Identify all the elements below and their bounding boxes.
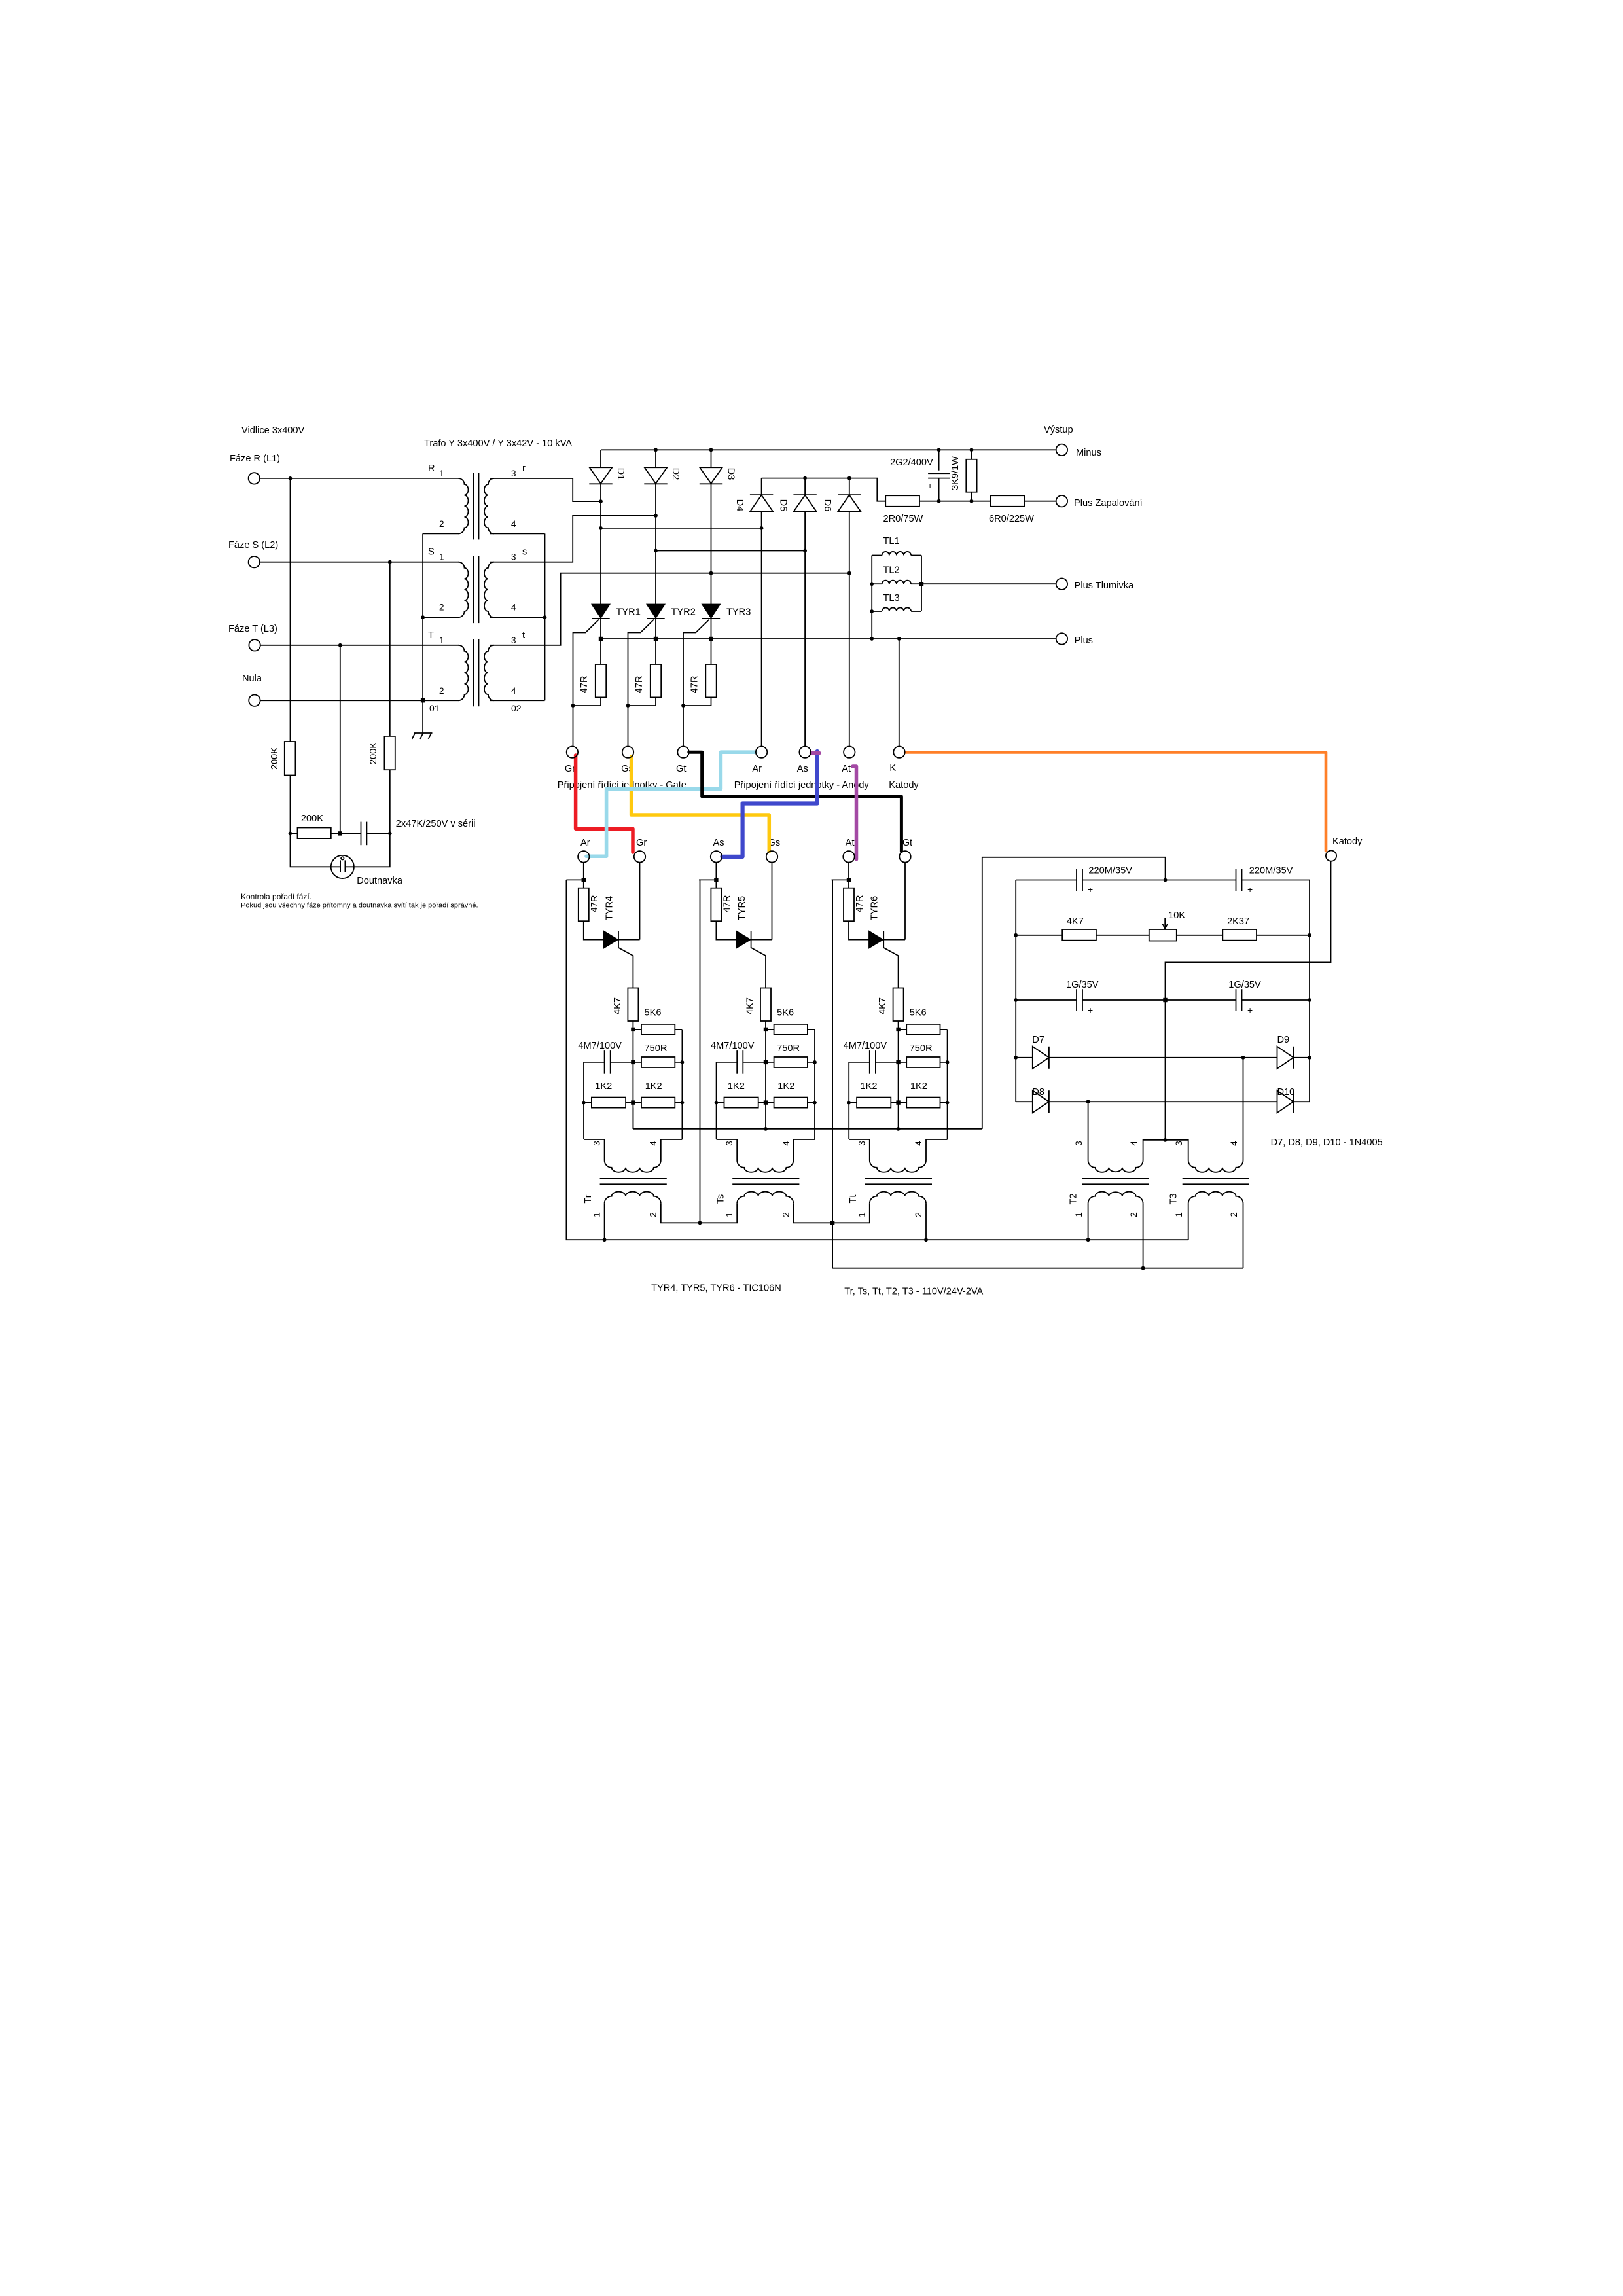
wire mid vertical lower: [632, 1062, 633, 1103]
label At lower: [846, 838, 855, 848]
terminal Plus Zapalování: [1056, 495, 1067, 507]
inductor TL2: [872, 581, 921, 584]
svg-text:2: 2: [439, 519, 444, 529]
node 1K2 mid junction: [764, 1100, 768, 1104]
wire mid to bus: [765, 1103, 766, 1129]
resistor 4K7 (pot row): [1062, 929, 1096, 941]
wire S drop lower: [389, 770, 391, 833]
label As lower: [713, 838, 724, 848]
wire 750R right: [808, 1062, 815, 1063]
wire t pin3 to D3/D6: [490, 573, 849, 645]
wire TYR4 anode terminal lead: [583, 863, 584, 888]
svg-text:TYR3: TYR3: [726, 607, 751, 618]
svg-text:3: 3: [724, 1141, 734, 1146]
svg-text:1K2: 1K2: [645, 1081, 662, 1092]
gate TYR6: [884, 948, 899, 988]
transformer R primary winding: [459, 478, 469, 533]
label 02: [511, 703, 522, 713]
wire T3 pin2: [1243, 1204, 1244, 1268]
node T junction: [338, 643, 342, 647]
text Kontrola: [241, 892, 312, 901]
wire middle bus: [633, 1108, 982, 1129]
wire TYR6 cathode terminal lead: [904, 863, 906, 940]
resistor 47R (TYR6): [844, 888, 854, 922]
wire mid vertical upper: [632, 1030, 633, 1062]
wire row C left: [1016, 935, 1062, 936]
wire 750R lead: [899, 1062, 907, 1063]
wire lamp right lead: [345, 833, 389, 867]
label D3: [726, 468, 736, 480]
transformer T3 primary winding: [1188, 1160, 1243, 1172]
node link junction: [1164, 1138, 1168, 1142]
svg-text:2K37: 2K37: [1227, 916, 1249, 927]
node gate2 junction: [626, 704, 630, 708]
transformer R secondary winding: [484, 478, 494, 533]
label T2 pin3: [1074, 1141, 1084, 1146]
svg-text:+: +: [1247, 1005, 1253, 1015]
label D7: [1032, 1035, 1044, 1045]
svg-text:TL1: TL1: [883, 536, 900, 547]
node zap 3K9: [970, 499, 974, 503]
node 1K2 mid junction: [631, 1100, 635, 1104]
label 4K7 (TYR5): [745, 997, 755, 1014]
wire row A link: [982, 857, 1166, 880]
transformer T primary winding: [459, 645, 469, 700]
label TYR6: [870, 896, 880, 920]
resistor 1K2b (TYR6): [906, 1098, 940, 1108]
svg-text:TYR2: TYR2: [671, 607, 696, 618]
svg-text:1: 1: [439, 469, 444, 478]
svg-text:Fáze R (L1): Fáze R (L1): [230, 454, 280, 464]
svg-text:Tr: Tr: [583, 1194, 594, 1203]
wire right rail right net: [1309, 880, 1310, 1102]
svg-text:47R: 47R: [689, 676, 700, 694]
node R junction: [289, 476, 293, 480]
label Ts pin4: [781, 1141, 791, 1146]
svg-text:At: At: [842, 764, 851, 774]
wire Nula line: [260, 700, 459, 701]
svg-text:Pokud jsou všechny fáze přítom: Pokud jsou všechny fáze přítomny a doutn…: [241, 902, 478, 910]
thyristor TYR4: [604, 931, 618, 948]
svg-text:Vidlice 3x400V: Vidlice 3x400V: [241, 425, 305, 436]
svg-text:Trafo Y 3x400V / Y 3x42V - 10: Trafo Y 3x400V / Y 3x42V - 10 kVA: [424, 439, 572, 449]
wire T3 pin4: [1243, 1058, 1244, 1160]
resistor 1K2a (TYR4): [592, 1098, 626, 1108]
svg-text:2: 2: [781, 1212, 791, 1217]
wire D3 to TYR3: [711, 484, 712, 604]
label D6: [822, 499, 832, 512]
svg-text:5K6: 5K6: [910, 1008, 927, 1018]
wire lamp row b: [331, 833, 361, 834]
svg-text:D6: D6: [822, 499, 832, 512]
svg-text:1K2: 1K2: [777, 1081, 794, 1092]
wire Fáze T line: [260, 645, 459, 646]
wire TL left rail: [871, 556, 872, 639]
wire cap right: [611, 1062, 633, 1063]
svg-text:2R0/75W: 2R0/75W: [883, 514, 923, 524]
wire mid to bus: [632, 1103, 633, 1129]
node 750R right junction: [813, 1060, 817, 1064]
wire 4K7 bottom: [765, 1021, 766, 1030]
wire cap 2G2 bottom: [938, 478, 940, 501]
svg-text:4K7: 4K7: [745, 997, 755, 1014]
wire Plus bus: [601, 638, 1056, 639]
svg-text:10K: 10K: [1168, 910, 1185, 921]
label As upper: [797, 764, 808, 774]
svg-text:K: K: [889, 763, 896, 774]
wire gate2 to terminal: [628, 706, 629, 747]
wire 1K2 right lead: [940, 1102, 948, 1103]
wire mid vertical lower: [898, 1062, 899, 1103]
node row C left: [1014, 933, 1018, 937]
resistor 1K2a (TYR5): [724, 1098, 758, 1108]
svg-text:Gr: Gr: [565, 764, 575, 774]
label Tt pin2: [914, 1212, 923, 1217]
label T2 pin1: [1074, 1212, 1084, 1217]
wire left long vertical: [982, 857, 983, 1129]
wire 1K2a lead: [584, 1102, 592, 1103]
wire TYR6 cathode: [883, 939, 905, 941]
label 47R (TYR4): [590, 895, 600, 913]
resistor 6R0/225W: [990, 495, 1024, 507]
wire R drop: [290, 478, 291, 742]
wire row G left: [1016, 1101, 1033, 1102]
terminal Fáze T: [249, 639, 260, 651]
svg-text:T3: T3: [1169, 1193, 1179, 1204]
node mid bus TYR5: [764, 1127, 768, 1131]
svg-text:4: 4: [914, 1141, 923, 1146]
label T3: [1169, 1193, 1179, 1204]
svg-text:4K7: 4K7: [1067, 916, 1084, 927]
node 750R right junction: [681, 1060, 685, 1064]
wire R pin2 to star: [423, 533, 459, 534]
wire row F right: [1293, 1057, 1310, 1058]
svg-text:47R: 47R: [590, 895, 600, 913]
node TYR6 rail junction: [830, 1221, 834, 1225]
label TYR5: [737, 896, 747, 920]
text Připojení Anody: [734, 780, 870, 791]
wire cap 2G2 top: [938, 450, 940, 470]
label TYR2: [671, 607, 696, 618]
svg-text:D10: D10: [1277, 1087, 1295, 1098]
wire R drop lower: [290, 776, 291, 834]
resistor 1K2b (TYR5): [774, 1098, 808, 1108]
wire TL right rail: [921, 556, 922, 612]
wire 3K9 bottom: [971, 492, 972, 501]
wire T2 pin4 to T3 pin3: [1143, 1140, 1188, 1160]
capacitor 220M/35V (2): [1236, 869, 1242, 891]
node D1-D4 junction: [599, 526, 603, 530]
node TYR5 anode junction: [714, 878, 718, 882]
label 47R (TYR1): [579, 676, 590, 694]
node 750R junction: [896, 1060, 900, 1064]
text trafos: [844, 1287, 983, 1297]
label 3K9/1W: [950, 456, 961, 490]
svg-text:1K2: 1K2: [910, 1081, 927, 1092]
label D1: [615, 468, 626, 480]
wire left pin rail: [716, 1103, 717, 1139]
wire pin3 jog: [717, 1139, 738, 1160]
wire primary star vertical: [422, 533, 423, 700]
label Ts pin3: [724, 1141, 734, 1146]
label 2G2/400V: [890, 457, 933, 468]
label D5: [777, 499, 788, 512]
node T3 pin4 junction: [1241, 1056, 1245, 1060]
resistor 2K37: [1222, 929, 1257, 941]
label Ar upper: [752, 764, 762, 774]
wire red Gr-Gr: [576, 755, 633, 852]
wire cap right: [876, 1062, 899, 1063]
transformer Tr secondary winding: [605, 1192, 661, 1204]
label Ts pin1: [724, 1212, 734, 1217]
wire zap to terminal: [1024, 501, 1056, 502]
svg-text:Minus: Minus: [1076, 448, 1101, 458]
node TYR4 anode junction: [582, 878, 586, 882]
svg-text:47R: 47R: [579, 676, 590, 694]
label 2G2 plus: [927, 480, 933, 491]
svg-text:+: +: [1247, 884, 1253, 895]
label 200K (S): [368, 742, 379, 764]
svg-text:1: 1: [857, 1212, 867, 1217]
wire TYR5 left rail: [700, 880, 701, 1223]
wire row B mid: [1082, 880, 1236, 881]
capacitor 2x47K/250V: [361, 822, 367, 846]
wire T2 pin2: [1143, 1204, 1144, 1268]
svg-text:3: 3: [592, 1141, 602, 1146]
node D5 anode junction: [803, 549, 807, 553]
wire D1 to TYR1: [600, 484, 601, 604]
svg-text:s: s: [522, 547, 527, 558]
node D6 anode junction: [847, 571, 851, 575]
wire TYR4 left rail: [566, 880, 604, 1240]
wire TYR4 cathode terminal lead: [639, 863, 641, 940]
wire 4K7 bottom: [632, 1021, 633, 1030]
svg-text:Připojení řídící jednotky - An: Připojení řídící jednotky - Anody: [734, 780, 870, 791]
svg-text:Kontrola pořadí fází.: Kontrola pořadí fází.: [241, 892, 312, 901]
svg-text:D9: D9: [1277, 1035, 1290, 1045]
node 1K2 right junction: [681, 1101, 685, 1105]
wire s pin3 to D2: [490, 516, 656, 562]
thyristor TYR6: [869, 931, 883, 948]
svg-text:TL2: TL2: [883, 565, 900, 576]
label 4K7 (pot row): [1067, 916, 1084, 927]
node TL rail on bus: [870, 637, 874, 641]
wire gate1 to terminal: [573, 706, 574, 747]
svg-text:200K: 200K: [270, 747, 280, 770]
wire TYR4 anode: [584, 921, 604, 939]
resistor 5K6 (TYR5): [774, 1024, 808, 1035]
label Plus Tlumivka: [1075, 581, 1134, 591]
diode D7: [1033, 1047, 1049, 1069]
label 4K7 (TYR4): [613, 997, 623, 1014]
wire row E mid: [1082, 999, 1236, 1001]
wire 5K6 right: [940, 1029, 948, 1030]
wire pin4 jog: [793, 1139, 815, 1160]
label 4M7/100V (TYR6): [844, 1041, 887, 1051]
wire right rail: [681, 1030, 683, 1139]
terminal Gr (lower): [634, 851, 645, 862]
svg-text:5K6: 5K6: [645, 1008, 662, 1018]
label Tr pin3: [592, 1141, 602, 1146]
svg-text:Fáze T (L3): Fáze T (L3): [228, 624, 277, 634]
wire right rail: [947, 1030, 948, 1139]
node bus D6: [847, 476, 851, 480]
svg-text:2: 2: [1229, 1212, 1239, 1217]
diode D1: [589, 467, 612, 484]
svg-text:4: 4: [511, 519, 516, 529]
wire left pin rail: [848, 1103, 849, 1139]
ground symbol: [412, 733, 433, 739]
transformer T core: [473, 639, 478, 706]
gate TYR1: [573, 620, 599, 706]
svg-text:1: 1: [1074, 1212, 1084, 1217]
node 1K2 left junction: [715, 1101, 719, 1105]
label 750R (TYR6): [910, 1043, 933, 1054]
node gate1 junction: [571, 704, 575, 708]
label T3 pin1: [1174, 1212, 1184, 1217]
diode D9: [1277, 1047, 1294, 1069]
terminal Katody: [1326, 851, 1336, 861]
label Výstup: [1044, 425, 1073, 435]
terminal Ar (upper): [756, 747, 767, 758]
wire TYR6 anode: [849, 921, 869, 939]
svg-text:3: 3: [511, 636, 516, 645]
wire 750R lead: [633, 1062, 641, 1063]
wire TYR5 cathode terminal lead: [772, 863, 773, 940]
svg-text:Plus Zapalování: Plus Zapalování: [1074, 498, 1143, 509]
wire lamp row a: [291, 833, 298, 834]
node D4 anode junction: [760, 526, 764, 530]
transformer Ts secondary winding: [737, 1192, 793, 1204]
wire zap row: [919, 501, 990, 502]
node 5K6 junction: [896, 1028, 900, 1031]
capacitor 4M7/100V (TYR6): [870, 1050, 876, 1074]
terminal Gt (lower): [899, 851, 910, 862]
svg-text:Doutnavka: Doutnavka: [357, 876, 403, 886]
wire r pin3 to D1: [490, 478, 601, 501]
svg-text:3K9/1W: 3K9/1W: [950, 456, 961, 490]
svg-text:Nula: Nula: [242, 673, 262, 684]
wire 5K6 lead: [899, 1029, 907, 1030]
label Gr lower: [636, 838, 647, 848]
svg-text:47R: 47R: [722, 895, 732, 913]
svg-text:750R: 750R: [777, 1043, 800, 1054]
node TYR5 rail junction: [698, 1221, 702, 1225]
svg-text:1K2: 1K2: [595, 1081, 612, 1092]
svg-text:At: At: [846, 838, 855, 848]
svg-text:+: +: [1088, 884, 1093, 895]
wire row F mid: [1049, 1057, 1277, 1058]
label 1K2b (TYR5): [777, 1081, 794, 1092]
node T2 pin2 junction: [1141, 1266, 1145, 1270]
label T2 pin2: [1129, 1212, 1139, 1217]
svg-text:+: +: [927, 480, 933, 491]
svg-text:5K6: 5K6: [777, 1008, 794, 1018]
svg-text:02: 02: [511, 703, 522, 713]
svg-text:4: 4: [649, 1141, 658, 1146]
wire 47R1 top: [600, 639, 601, 664]
resistor 2R0/75W: [885, 495, 919, 507]
label 200K (R): [270, 747, 280, 770]
label 1G/35V (2): [1228, 980, 1261, 990]
wire mid to bus: [898, 1103, 899, 1129]
terminal Fáze R: [249, 473, 260, 484]
wire pin3 jog: [849, 1139, 870, 1160]
svg-text:2: 2: [649, 1212, 658, 1217]
label 200K (horiz): [301, 814, 323, 824]
wire cap left: [584, 1062, 605, 1103]
svg-text:D4: D4: [734, 499, 745, 512]
svg-text:Katody: Katody: [1332, 836, 1363, 847]
transformer T2 primary winding: [1088, 1160, 1143, 1172]
wire S pin2 stub: [423, 617, 459, 618]
wire D2 to TYR2: [655, 484, 656, 604]
svg-text:TYR1: TYR1: [616, 607, 641, 618]
wire row B: [1016, 880, 1077, 881]
wire pin3 jog: [584, 1139, 605, 1160]
terminal Minus: [1056, 444, 1067, 456]
resistor 750R (TYR6): [906, 1057, 940, 1067]
label Tr pin4: [649, 1141, 658, 1146]
transformer Ts primary winding: [737, 1160, 793, 1172]
label T pin2: [439, 686, 444, 696]
svg-text:2: 2: [1129, 1212, 1139, 1217]
diode D4: [750, 495, 773, 511]
node row G T2pin3: [1086, 1100, 1090, 1103]
label 1K2b (TYR6): [910, 1081, 927, 1092]
resistor 47R (TYR5): [711, 888, 721, 922]
wire TYR5 anode: [716, 921, 736, 939]
label 4M7/100V (TYR5): [711, 1041, 755, 1051]
label Gt upper: [676, 764, 686, 774]
label t pin3: [511, 630, 525, 645]
inductor TL1: [872, 552, 921, 556]
svg-text:D8: D8: [1032, 1087, 1044, 1098]
node 1K2 left junction: [582, 1101, 586, 1105]
svg-text:r: r: [522, 463, 526, 474]
wire mid vertical lower: [765, 1062, 766, 1103]
wire TYR5 cathode: [751, 939, 772, 941]
node bus D3: [709, 448, 713, 452]
wire TYR3 cathode: [711, 619, 712, 639]
node lamp row right: [388, 832, 392, 836]
node row F right: [1308, 1056, 1311, 1060]
node TL3 left: [870, 609, 874, 613]
label 4K7 (TYR6): [878, 997, 888, 1014]
label 1K2a (TYR6): [861, 1081, 878, 1092]
wire Minus bus: [601, 449, 1056, 450]
label D8: [1032, 1087, 1044, 1098]
wire row F left: [1016, 1057, 1033, 1058]
transformer S core: [473, 556, 478, 623]
thyristor TYR5: [736, 931, 751, 948]
label 1G plus (2): [1247, 1005, 1253, 1015]
svg-text:1: 1: [439, 552, 444, 562]
svg-text:4K7: 4K7: [613, 997, 623, 1014]
wire TYR5 anode terminal lead: [715, 863, 717, 888]
wire row C right: [1257, 935, 1310, 936]
svg-text:1: 1: [1174, 1212, 1184, 1217]
svg-text:TYR4: TYR4: [604, 896, 615, 920]
wire row C mid2: [1177, 935, 1223, 936]
svg-text:TL3: TL3: [883, 593, 900, 603]
node TYR3 bus: [709, 637, 713, 641]
svg-text:47R: 47R: [855, 895, 865, 913]
wire row E left: [1016, 999, 1077, 1001]
resistor 200K (S): [384, 736, 395, 770]
transformer R core: [473, 473, 478, 539]
node Nula star junction: [421, 698, 425, 702]
